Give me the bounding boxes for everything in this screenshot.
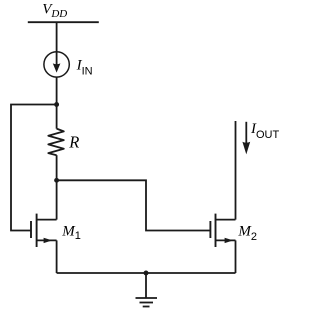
- transistor M1 source arrow head: [44, 238, 53, 243]
- ground stem: [145, 273, 147, 298]
- wire M1 source to ground rail: [56, 240, 58, 273]
- transistor M2 source arrow head: [225, 238, 234, 243]
- transistor M1 source lead: [37, 239, 57, 241]
- current source arrow head: [53, 63, 61, 72]
- I_OUT arrow head: [242, 142, 250, 155]
- transistor M1 drain lead: [37, 219, 57, 221]
- wire M2 source to ground rail: [235, 240, 237, 273]
- ground bar 3: [143, 306, 150, 308]
- node A junction dot: [54, 102, 59, 107]
- ground rail: [57, 272, 236, 274]
- transistor M1 channel: [36, 214, 38, 247]
- transistor M2 drain lead: [216, 219, 236, 221]
- current source arrow shaft: [56, 52, 58, 66]
- ground node junction dot: [144, 271, 149, 276]
- resistor R zigzag: [48, 129, 64, 156]
- wire rail to current source: [56, 22, 58, 52]
- wire resistor to M1 drain: [56, 155, 58, 219]
- current source I_IN circle: [44, 52, 69, 77]
- transistor M2 channel: [215, 214, 217, 247]
- wire node A to M1 gate (feedback): [11, 105, 57, 231]
- transistor M2 source lead: [216, 239, 236, 241]
- wire node B to M2 gate: [57, 180, 211, 230]
- I_OUT arrow shaft: [245, 122, 247, 146]
- wire current source to node A: [56, 77, 58, 129]
- ground bar 2: [140, 302, 154, 304]
- transistor M2 gate bar: [209, 221, 211, 238]
- wire M2 drain up (output branch): [235, 121, 237, 220]
- power rail VDD: [28, 21, 99, 23]
- ground bar 1: [136, 297, 158, 299]
- svg-text:R: R: [68, 133, 79, 152]
- node B junction dot: [54, 178, 59, 183]
- transistor M1 gate bar: [30, 221, 32, 238]
